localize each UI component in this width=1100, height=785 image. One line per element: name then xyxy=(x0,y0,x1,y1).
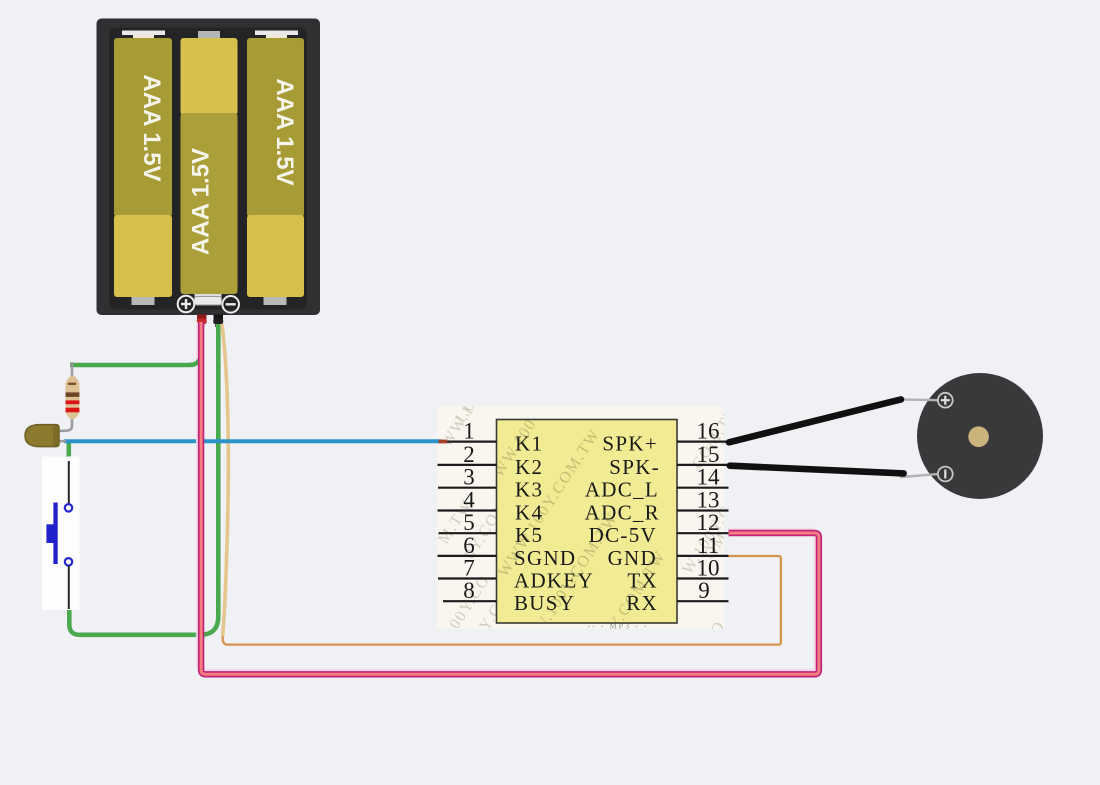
pushbutton terminal circle top xyxy=(65,504,72,511)
svg-text:14: 14 xyxy=(697,465,721,490)
black wire SPK- xyxy=(730,466,904,474)
pin 1 red wire tip xyxy=(439,440,448,444)
pin 14 line xyxy=(677,487,729,489)
wire green A (battery + to resistor) xyxy=(70,322,201,365)
svg-text:GND: GND xyxy=(608,546,657,570)
pin 3 line xyxy=(438,487,497,489)
svg-text:8: 8 xyxy=(463,578,475,603)
battery cell 1 (left AAA 1.5V) xyxy=(114,31,172,306)
svg-text:SGND: SGND xyxy=(514,546,576,570)
buzzer - terminal xyxy=(938,467,953,482)
module background (scanned datasheet) xyxy=(435,372,749,662)
svg-text:K5: K5 xyxy=(515,523,543,547)
plus terminal symbol xyxy=(178,296,195,313)
pin 13 line xyxy=(677,509,729,511)
resistor R1 leads xyxy=(56,362,72,431)
svg-text:5: 5 xyxy=(463,510,475,535)
pushbutton bottom lead line xyxy=(68,566,70,609)
svg-text:2: 2 xyxy=(463,442,475,467)
svg-text:K3: K3 xyxy=(515,478,543,502)
svg-text:13: 13 xyxy=(697,488,720,513)
wire green B (battery - to pushbutton) xyxy=(69,324,218,635)
pin 15 line xyxy=(677,464,729,466)
pin 9 line xyxy=(677,600,729,602)
pin 6 line xyxy=(438,555,497,557)
black crimp (- lead) xyxy=(213,315,223,328)
pin 8 line xyxy=(443,600,497,602)
svg-text:10: 10 xyxy=(697,556,720,581)
black wire SPK+ xyxy=(729,399,901,442)
svg-text:11: 11 xyxy=(697,533,719,558)
svg-text:AAA 1.5V: AAA 1.5V xyxy=(138,74,165,181)
wire green stub (mic junction to pushbutton top) xyxy=(67,441,72,461)
svg-text:K4: K4 xyxy=(515,501,543,525)
pushbutton actuator glyph xyxy=(46,503,57,565)
svg-text:ADKEY: ADKEY xyxy=(514,569,594,593)
pin 12 line xyxy=(677,532,729,534)
svg-text:K1: K1 xyxy=(515,432,543,456)
pin 4 line xyxy=(438,509,497,511)
buzzer + terminal xyxy=(938,393,953,408)
buzzer center pad xyxy=(968,426,989,447)
pin 5 line xyxy=(439,532,497,534)
electret mic MK1 xyxy=(25,425,59,447)
svg-text:16: 16 xyxy=(697,419,720,444)
svg-text:AAA 1.5V: AAA 1.5V xyxy=(187,148,214,255)
svg-text:4: 4 xyxy=(463,488,475,513)
wire pink (battery + to pin 12 DC-5V) xyxy=(201,322,819,674)
battery holder BT1 xyxy=(97,19,321,316)
red crimp (+ lead) xyxy=(197,315,207,328)
pin 16 line xyxy=(677,441,729,443)
holder output contact bar xyxy=(195,297,222,306)
svg-text:SPK+: SPK+ xyxy=(602,432,658,456)
svg-text:DC-5V: DC-5V xyxy=(589,523,657,547)
mic lead xyxy=(54,440,66,443)
svg-text:12: 12 xyxy=(697,510,720,535)
wire pink halo xyxy=(197,322,815,670)
svg-text:RX: RX xyxy=(626,591,658,615)
pin 10 line xyxy=(677,577,729,579)
pin 11 line xyxy=(677,555,729,557)
battery cell 3 (right AAA 1.5V) xyxy=(247,31,304,306)
svg-text:15: 15 xyxy=(697,442,720,467)
IC module U1 (MP3-TF-16P) yellow body xyxy=(481,340,782,742)
svg-text:SPK-: SPK- xyxy=(609,455,660,479)
wire orange (battery - to pin 11 GND) xyxy=(222,324,781,645)
svg-text:BUSY: BUSY xyxy=(514,591,575,615)
svg-text:6: 6 xyxy=(463,533,475,558)
svg-text:ADC_R: ADC_R xyxy=(585,501,660,525)
battery cell 2 (middle AAA 1.5V) xyxy=(181,31,238,298)
pushbutton S1 board xyxy=(42,457,80,611)
wire blue (mic to pin 1 K1) xyxy=(64,439,441,443)
pushbutton top lead line xyxy=(68,461,70,504)
svg-text:K2: K2 xyxy=(515,455,543,479)
resistor R1 xyxy=(66,376,80,420)
svg-text:AAA 1.5V: AAA 1.5V xyxy=(271,78,298,185)
buzzer + lead xyxy=(897,398,938,401)
pin 1 line xyxy=(442,441,497,443)
svg-text:TX: TX xyxy=(627,569,658,593)
buzzer LS1 body xyxy=(917,373,1043,499)
svg-text:ADC_L: ADC_L xyxy=(585,478,659,502)
pushbutton terminal circle bottom xyxy=(65,558,72,565)
svg-text:7: 7 xyxy=(463,556,475,581)
buzzer - lead xyxy=(900,474,938,477)
svg-text:3: 3 xyxy=(463,465,475,490)
pin 2 line xyxy=(438,464,497,466)
svg-text:9: 9 xyxy=(698,578,710,603)
svg-text:1: 1 xyxy=(463,419,475,444)
pin 7 line xyxy=(438,577,497,579)
minus terminal symbol xyxy=(222,296,239,313)
